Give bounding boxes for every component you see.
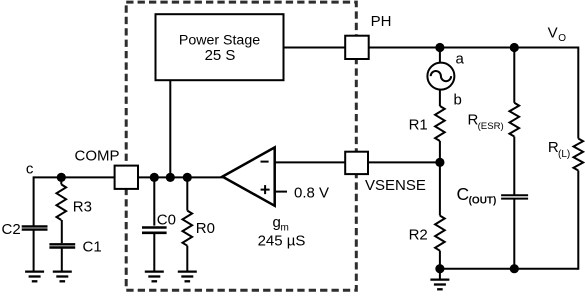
bottom return wire bbox=[440, 268, 578, 270]
svg-text:Power Stage: Power Stage bbox=[179, 32, 260, 48]
node VSENSE junction dot bbox=[435, 158, 444, 167]
pin PH bbox=[345, 13, 391, 59]
svg-text:COMP: COMP bbox=[75, 148, 120, 165]
junction dot C0 branch bbox=[150, 173, 159, 182]
dashed power-stage/error-amp block boundary bbox=[126, 2, 356, 290]
junction dot R0 branch bbox=[183, 173, 192, 182]
svg-text:C1: C1 bbox=[83, 239, 102, 256]
junction dot R3 branch bbox=[57, 173, 66, 182]
wire Power Stage output to PH bbox=[284, 47, 347, 49]
svg-text:V: V bbox=[548, 25, 558, 42]
ac source stub a bbox=[439, 48, 441, 63]
Power Stage block bbox=[156, 14, 284, 80]
resistor R1 bbox=[409, 106, 445, 141]
wire R3 to C1 bbox=[61, 220, 63, 243]
svg-text:R2: R2 bbox=[409, 227, 428, 244]
wire COMP to node c bbox=[34, 176, 115, 178]
svg-text:C0: C0 bbox=[157, 212, 176, 229]
capacitor C0 bbox=[142, 177, 176, 281]
svg-text:a: a bbox=[456, 51, 465, 68]
svg-text:0.8 V: 0.8 V bbox=[294, 184, 329, 201]
resistor R2 bbox=[409, 162, 445, 268]
svg-text:PH: PH bbox=[371, 13, 392, 30]
ground below R2 bbox=[430, 269, 449, 290]
top wire PH to Vo corner bbox=[368, 47, 578, 49]
wire R(ESR) to C(OUT) bbox=[513, 137, 515, 196]
junction dot bottom Cout branch bbox=[510, 264, 519, 273]
svg-text:(L): (L) bbox=[558, 149, 570, 160]
svg-text:(OUT): (OUT) bbox=[469, 196, 497, 207]
svg-text:C2: C2 bbox=[2, 221, 21, 238]
svg-text:b: b bbox=[454, 92, 462, 109]
resistor R3 bbox=[57, 177, 92, 220]
capacitor C(OUT) bbox=[457, 184, 529, 207]
node a label bbox=[456, 51, 465, 68]
svg-text:R3: R3 bbox=[73, 199, 92, 216]
capacitor C2 branch wire bbox=[33, 176, 35, 226]
capacitor C2 bbox=[2, 221, 48, 281]
svg-text:C: C bbox=[457, 184, 470, 204]
wire op-amp inverting input to VSENSE bbox=[275, 161, 346, 163]
junction dot top Cout branch bbox=[510, 43, 519, 52]
node Vo label bbox=[548, 25, 567, 44]
svg-text:(ESR): (ESR) bbox=[478, 121, 504, 132]
node ground junction dot bbox=[435, 264, 444, 273]
ac source stub b bbox=[439, 90, 441, 106]
wire C(OUT) to bottom bbox=[513, 199, 515, 269]
op-amp U1 error amplifier bbox=[222, 147, 274, 205]
svg-text:VSENSE: VSENSE bbox=[365, 177, 426, 194]
gm 245 uS label bbox=[258, 214, 306, 250]
junction dot power-stage branch bbox=[166, 173, 175, 182]
resistor R0 bbox=[178, 177, 215, 281]
svg-text:c: c bbox=[26, 161, 34, 178]
pin COMP bbox=[75, 148, 139, 189]
wire R1 to VSENSE node bbox=[439, 141, 441, 162]
0.8 V reference stub bbox=[275, 191, 287, 193]
svg-text:O: O bbox=[558, 33, 566, 44]
wire COMP node to op-amp output bbox=[138, 176, 223, 178]
0.8 V label bbox=[294, 184, 329, 201]
wire right edge down to R(L) bbox=[577, 47, 579, 139]
node c label bbox=[26, 161, 34, 178]
wire Power Stage bottom to COMP node bbox=[169, 80, 171, 177]
pin VSENSE bbox=[345, 152, 426, 194]
svg-text:R1: R1 bbox=[409, 116, 428, 133]
resistor R(ESR) bbox=[468, 48, 520, 137]
svg-text:245 µS: 245 µS bbox=[258, 233, 306, 250]
resistor R(L) bbox=[548, 139, 583, 171]
node a junction dot bbox=[435, 43, 444, 52]
wire VSENSE pin to divider bbox=[368, 161, 440, 163]
ac source (injection) circle bbox=[427, 63, 454, 90]
wire R(L) to bottom corner bbox=[577, 171, 579, 270]
svg-text:R0: R0 bbox=[196, 220, 215, 237]
svg-text:25 S: 25 S bbox=[205, 47, 236, 64]
node b label bbox=[454, 92, 462, 109]
capacitor C1 bbox=[49, 239, 101, 282]
